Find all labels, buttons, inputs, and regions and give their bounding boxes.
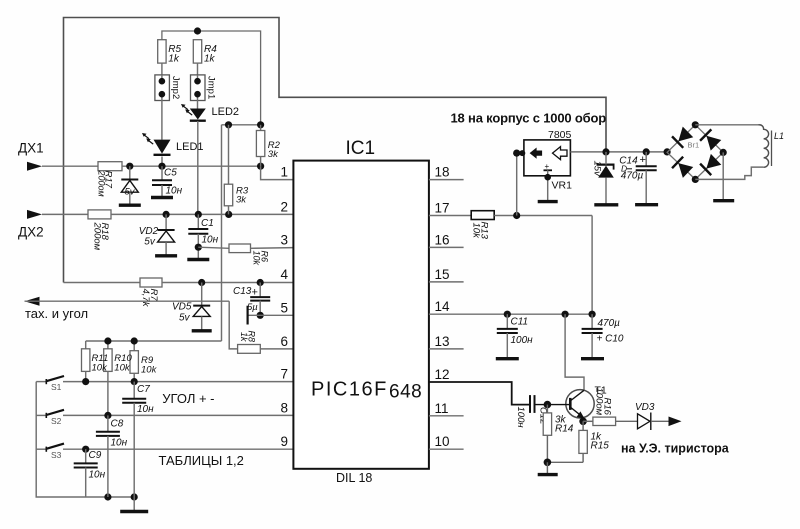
svg-text:ДХ2: ДХ2 <box>18 225 44 240</box>
svg-text:VR1: VR1 <box>552 180 573 192</box>
svg-text:9: 9 <box>280 434 288 449</box>
svg-text:10н: 10н <box>137 404 154 415</box>
svg-text:16: 16 <box>435 232 450 247</box>
svg-text:200ом: 200ом <box>92 222 103 251</box>
svg-text:LED2: LED2 <box>212 106 240 118</box>
svg-text:VD5: VD5 <box>172 302 192 313</box>
svg-text:100н: 100н <box>511 335 534 346</box>
svg-text:тах. и угол: тах. и угол <box>25 306 88 321</box>
svg-text:PIC16F: PIC16F <box>311 378 388 400</box>
svg-text:7: 7 <box>280 367 288 382</box>
svg-text:ДХ1: ДХ1 <box>18 141 44 156</box>
svg-text:3: 3 <box>280 232 288 247</box>
svg-text:8: 8 <box>280 400 288 415</box>
svg-text:5v: 5v <box>144 237 156 248</box>
svg-text:15v: 15v <box>592 161 603 178</box>
svg-text:14: 14 <box>435 299 451 314</box>
svg-text:5: 5 <box>280 300 288 315</box>
svg-text:C13: C13 <box>233 286 252 297</box>
svg-text:Jmp1: Jmp1 <box>206 76 217 99</box>
svg-text:2: 2 <box>280 199 288 214</box>
svg-text:C8: C8 <box>111 419 124 430</box>
svg-text:1: 1 <box>280 165 288 180</box>
svg-text:6: 6 <box>280 334 288 349</box>
svg-text:+ C10: + C10 <box>597 334 624 345</box>
svg-text:11: 11 <box>435 401 449 416</box>
svg-text:13: 13 <box>435 334 450 349</box>
svg-text:10k: 10k <box>114 363 131 374</box>
svg-text:1k: 1k <box>239 332 249 342</box>
svg-text:Br1: Br1 <box>688 141 700 150</box>
svg-text:18: 18 <box>435 165 450 180</box>
svg-text:4,7k: 4,7k <box>140 289 151 308</box>
svg-text:LED1: LED1 <box>176 141 204 153</box>
svg-text:C1: C1 <box>201 218 214 229</box>
svg-text:5µ: 5µ <box>247 302 258 313</box>
svg-text:100ом: 100ом <box>594 388 605 416</box>
svg-text:VD3: VD3 <box>635 402 655 413</box>
svg-text:4: 4 <box>280 267 288 282</box>
svg-text:10k: 10k <box>471 223 482 240</box>
svg-text:ТАБЛИЦЫ 1,2: ТАБЛИЦЫ 1,2 <box>159 453 244 468</box>
svg-text:3k: 3k <box>268 149 279 160</box>
svg-text:10н: 10н <box>111 438 128 449</box>
svg-text:10н: 10н <box>166 186 183 197</box>
svg-text:200ом: 200ом <box>97 170 107 197</box>
svg-text:+: + <box>252 287 258 299</box>
svg-text:12: 12 <box>435 367 450 382</box>
svg-text:VD2: VD2 <box>139 226 159 237</box>
svg-text:470µ: 470µ <box>598 318 621 329</box>
svg-text:S1: S1 <box>51 382 62 392</box>
svg-text:+: + <box>640 154 646 166</box>
svg-text:100н: 100н <box>515 407 526 429</box>
svg-text:15: 15 <box>435 267 450 282</box>
svg-text:C11: C11 <box>511 317 529 328</box>
svg-text:R15: R15 <box>591 441 610 452</box>
svg-text:DIL 18: DIL 18 <box>336 471 372 485</box>
svg-text:S3: S3 <box>51 450 62 460</box>
svg-text:10k: 10k <box>92 363 109 374</box>
svg-text:Jmp2: Jmp2 <box>170 76 181 99</box>
svg-text:18 на корпус с 1000 обор: 18 на корпус с 1000 обор <box>451 111 607 126</box>
svg-text:10k: 10k <box>141 365 158 376</box>
svg-text:10н: 10н <box>89 470 106 481</box>
svg-text:+: + <box>545 162 550 171</box>
svg-text:10: 10 <box>435 434 450 449</box>
svg-text:470µ: 470µ <box>621 171 644 182</box>
svg-text:5v: 5v <box>125 187 136 198</box>
svg-text:3k: 3k <box>236 195 247 206</box>
svg-text:IC1: IC1 <box>346 138 376 159</box>
svg-text:L1: L1 <box>774 131 784 141</box>
svg-text:S2: S2 <box>51 416 62 426</box>
svg-text:1k: 1k <box>204 54 216 65</box>
svg-text:10k: 10k <box>252 251 262 266</box>
svg-text:УГОЛ + -: УГОЛ + - <box>162 391 214 406</box>
svg-text:на У.Э. тиристора: на У.Э. тиристора <box>621 442 730 456</box>
svg-text:5v: 5v <box>179 313 191 324</box>
svg-text:7805: 7805 <box>548 129 572 141</box>
svg-text:17: 17 <box>435 201 450 216</box>
svg-text:C5: C5 <box>164 168 177 179</box>
svg-text:648: 648 <box>389 382 422 403</box>
svg-text:C9: C9 <box>89 450 102 461</box>
svg-text:R14: R14 <box>555 424 574 435</box>
svg-text:1k: 1k <box>168 54 180 65</box>
svg-text:10н: 10н <box>202 235 219 246</box>
svg-text:C7: C7 <box>137 384 150 395</box>
